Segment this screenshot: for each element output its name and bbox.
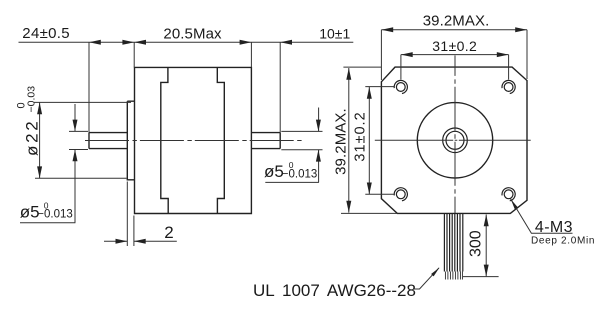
arrow 39.2 top left: [381, 27, 393, 32]
stator lamination step left: [161, 67, 168, 213]
centerline front horizontal: [375, 139, 531, 141]
svg-text:10±1: 10±1: [319, 25, 350, 41]
hole bottom-left: [394, 188, 407, 201]
300 dim line: [485, 215, 487, 277]
arrow 2 right: [134, 239, 146, 244]
31 top dim line: [401, 54, 509, 56]
arrow dia5 front down: [73, 120, 78, 132]
shaft circle inner: [446, 131, 464, 149]
arrowheads front view: [346, 27, 527, 276]
svg-text:4-M3: 4-M3: [535, 219, 573, 236]
dia22 ext top: [34, 101, 131, 103]
arrow 31 left top: [367, 87, 372, 99]
svg-text:31±0.2: 31±0.2: [432, 38, 477, 54]
dim text dia22 rotated: [16, 86, 42, 156]
dia22 ext bottom: [35, 177, 127, 179]
ext line body rear face: [250, 42, 252, 67]
UL leader: [414, 268, 440, 289]
svg-text:ø22: ø22: [23, 119, 42, 156]
arrow 300 bottom: [484, 265, 489, 277]
svg-text:−0.013: −0.013: [37, 209, 73, 221]
arrow 20.5 left: [134, 40, 146, 45]
hole bottom-right: [502, 188, 515, 201]
ext line shaft tip: [88, 42, 90, 132]
dia5 front ext bottom: [69, 149, 88, 151]
hole top-left: [394, 80, 407, 93]
arrow 24 right: [122, 40, 134, 45]
39.2 top ext lines: [381, 30, 527, 80]
ext line rear shaft end: [279, 42, 281, 132]
dia5 rear dim/leader vertical: [318, 108, 320, 183]
31 top ext lines: [401, 55, 509, 80]
arrow 31 top right: [497, 52, 509, 57]
39.2 left dim line: [348, 68, 350, 213]
stator lamination step right: [217, 67, 224, 213]
dia5 rear ext lines: [281, 131, 322, 149]
dia5 front dim/leader vertical: [74, 104, 76, 223]
arrow 10 right outside: [280, 40, 292, 45]
arrow 2 left: [116, 239, 128, 244]
arrow dia5 rear up: [316, 150, 321, 162]
300 bottom ext line: [463, 276, 499, 278]
arrow 24 left: [89, 40, 101, 45]
texts left view: [16, 25, 351, 242]
arrow 300 top: [484, 215, 489, 227]
front pilot boss: [127, 101, 134, 180]
svg-text:2: 2: [164, 223, 173, 242]
centerline front vertical: [454, 55, 456, 213]
31 left dim line: [368, 87, 370, 194]
dia5 front ext top: [69, 130, 88, 132]
svg-text:39.2MAX.: 39.2MAX.: [333, 108, 350, 175]
arrowheads left view: [37, 40, 321, 244]
lead wires bundle: [444, 214, 462, 280]
svg-text:24±0.5: 24±0.5: [22, 25, 70, 42]
4-M3 leader: [511, 199, 573, 233]
dia5 front label underline: [20, 222, 75, 224]
arrow 39.2 left bottom: [346, 201, 351, 213]
svg-text:−0.013: −0.013: [282, 168, 318, 180]
39.2 left ext lines: [341, 67, 397, 213]
arrow UL leader: [431, 268, 439, 277]
front shaft: [89, 133, 127, 149]
arrow dia5 rear down: [316, 120, 321, 132]
svg-text:39.2MAX.: 39.2MAX.: [423, 13, 490, 30]
39.2 top dim line: [381, 29, 527, 31]
arrow dia5 front up: [73, 150, 78, 162]
shaft circle outer: [443, 128, 468, 153]
centerline left view: [85, 140, 302, 142]
front face outline chamfered square: [381, 67, 527, 213]
svg-text:Deep 2.0Min: Deep 2.0Min: [531, 236, 595, 247]
svg-text:0: 0: [16, 102, 28, 108]
hole top-right: [502, 80, 515, 93]
dia5 rear label underline: [265, 181, 319, 183]
arrow 31 top left: [401, 52, 413, 57]
pilot boss circle: [417, 103, 492, 178]
31 left ext lines: [365, 87, 394, 195]
motor body outline (side view): [135, 67, 252, 213]
svg-text:300: 300: [468, 230, 485, 257]
arrow dia22 top: [37, 102, 42, 114]
ext line body front face: [133, 42, 135, 67]
top dimension line (24 / 20.5 / 10): [19, 41, 354, 43]
svg-text:20.5Max: 20.5Max: [163, 26, 222, 43]
arrow 39.2 top right: [515, 27, 527, 32]
rear shaft: [251, 133, 280, 149]
arrow 39.2 left top: [346, 68, 351, 80]
svg-text:31±0.2: 31±0.2: [352, 111, 368, 161]
arrow dia22 bottom: [37, 166, 42, 178]
arrow 20.5 right: [240, 40, 252, 45]
dia22 dimension line: [39, 102, 41, 178]
arrow 31 left bottom: [367, 183, 372, 195]
texts front view: [253, 13, 595, 300]
boss thickness dim arrows tails: [104, 240, 177, 242]
mounting holes 4-M3: [394, 80, 515, 200]
svg-text:UL 1007 AWG26--28: UL 1007 AWG26--28: [253, 281, 416, 300]
arrow 4-M3 leader: [511, 199, 518, 209]
boss thickness ext lines: [127, 182, 134, 247]
